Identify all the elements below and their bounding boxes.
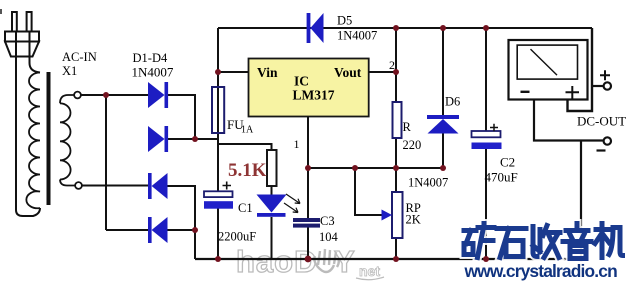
wire left vertical bbox=[105, 95, 107, 230]
svg-text:2K: 2K bbox=[406, 213, 421, 227]
transformer X1 secondary bbox=[60, 103, 71, 179]
svg-text:1: 1 bbox=[294, 137, 300, 151]
svg-text:1N4007: 1N4007 bbox=[408, 176, 448, 190]
junction ADJ R220/RP bbox=[393, 165, 399, 171]
junction top rail D6 bbox=[440, 25, 446, 31]
svg-text:www.crystalradio.cn: www.crystalradio.cn bbox=[464, 261, 618, 281]
svg-text:C1: C1 bbox=[238, 201, 253, 215]
terminal DC- bbox=[604, 137, 611, 144]
wire C2 column bbox=[485, 28, 487, 259]
junction ADJ D6 bbox=[440, 165, 446, 171]
wire minus drop to rail bbox=[580, 141, 582, 260]
diode D6 bbox=[427, 115, 459, 134]
junction secondary-top node bbox=[103, 92, 109, 98]
svg-text:Y: Y bbox=[334, 244, 355, 279]
terminal circle bottom bbox=[75, 182, 82, 189]
watermark haoDIY.net bbox=[236, 244, 384, 280]
svg-text:DC-OUT: DC-OUT bbox=[577, 114, 626, 129]
diode D2 bbox=[148, 126, 168, 152]
svg-text:Vin: Vin bbox=[257, 65, 278, 80]
wire branch to 5.1K bbox=[218, 144, 272, 150]
resistor R 220 bbox=[393, 102, 402, 138]
fuse FU bbox=[212, 87, 224, 133]
watermark kuangshi chars bbox=[464, 224, 623, 259]
meter M1 bbox=[509, 40, 588, 100]
svg-text:IC: IC bbox=[294, 74, 309, 89]
junction rail DC-minus bbox=[578, 256, 583, 261]
svg-text:C3: C3 bbox=[320, 214, 335, 228]
wire D4 row bbox=[106, 229, 195, 231]
junction rail C3 bbox=[305, 256, 312, 263]
diode D3 bbox=[148, 173, 168, 199]
svg-text:470uF: 470uF bbox=[485, 170, 518, 185]
svg-text:R: R bbox=[403, 120, 412, 134]
junction rail C1 bbox=[215, 256, 221, 262]
wire D3 anode jog bbox=[168, 186, 196, 230]
junction D1-D2 cathodes bbox=[192, 136, 198, 142]
diode D5 bbox=[307, 13, 324, 43]
junction Vout pin 2 bbox=[393, 69, 399, 75]
wire Vout bbox=[369, 71, 396, 73]
junction rail RP bbox=[393, 256, 399, 262]
junction ADJ wiper bbox=[352, 165, 358, 171]
junction D3-D4 anodes bbox=[192, 227, 198, 233]
wire main positive column x218 bbox=[217, 28, 219, 259]
terminal DC+ bbox=[604, 82, 611, 89]
wire pin1 column bbox=[307, 117, 309, 260]
svg-text:Vout: Vout bbox=[334, 65, 362, 80]
wire 5.1K to LED bbox=[271, 186, 273, 195]
svg-text:1N4007: 1N4007 bbox=[132, 65, 174, 80]
junction ADJ pin1/C3 bbox=[305, 165, 311, 171]
potentiometer RP bbox=[392, 192, 403, 238]
capacitor C3 bbox=[293, 218, 320, 222]
transformer X1 primary bbox=[26, 73, 40, 209]
wire DC-OUT plus hook bbox=[568, 28, 593, 111]
svg-text:D5: D5 bbox=[337, 14, 352, 28]
wire R220 column bbox=[395, 28, 397, 259]
svg-text:AC-IN: AC-IN bbox=[62, 50, 97, 64]
wire D2 row to fuse column bbox=[168, 138, 219, 140]
svg-text:LM317: LM317 bbox=[293, 88, 335, 103]
wire plug cord bbox=[16, 32, 40, 216]
wire bottom rail bbox=[195, 258, 581, 260]
wire plus terminal lead bbox=[592, 85, 603, 87]
svg-text:2200uF: 2200uF bbox=[218, 230, 256, 244]
watermark crystalradio bbox=[464, 261, 618, 281]
svg-text:haoD: haoD bbox=[236, 244, 318, 279]
junction top rail R220 bbox=[393, 25, 399, 31]
LED D7 bbox=[257, 195, 287, 217]
wire minus branch bbox=[534, 88, 603, 141]
svg-text:D1-D4: D1-D4 bbox=[133, 51, 168, 65]
capacitor C2 bbox=[472, 131, 501, 137]
RP wiper arrow bbox=[382, 210, 393, 221]
svg-text:X1: X1 bbox=[62, 64, 77, 78]
svg-text:220: 220 bbox=[403, 138, 422, 152]
wire top rail bbox=[218, 27, 592, 29]
resistor 5.1K bbox=[267, 150, 277, 186]
wire Vin bbox=[218, 71, 249, 73]
svg-text:1A: 1A bbox=[241, 125, 254, 136]
junction rail C2 bbox=[483, 256, 489, 262]
wire LED to rail bbox=[271, 217, 273, 259]
wire secondary bottom to D3 bbox=[82, 185, 148, 187]
svg-text:net: net bbox=[359, 263, 380, 279]
svg-text:D6: D6 bbox=[445, 95, 460, 109]
svg-text:104: 104 bbox=[319, 230, 339, 244]
wire D1 cathode jog bbox=[168, 95, 196, 139]
junction Vin branch bbox=[215, 69, 221, 75]
terminal circle top bbox=[74, 92, 81, 99]
wire bottom rail drop bbox=[194, 230, 196, 259]
svg-text:1N4007: 1N4007 bbox=[337, 29, 377, 43]
LED arrows bbox=[284, 194, 300, 213]
diode D1 bbox=[148, 82, 168, 108]
svg-text:5.1K: 5.1K bbox=[228, 160, 267, 181]
capacitor C1 bbox=[204, 191, 233, 197]
svg-text:2: 2 bbox=[389, 58, 395, 72]
plug P1 bbox=[5, 12, 39, 57]
wire RP wiper bbox=[355, 168, 382, 215]
diode D4 bbox=[148, 217, 168, 243]
IC U1 LM317 box bbox=[249, 59, 369, 117]
svg-text:C2: C2 bbox=[500, 155, 515, 170]
wire ADJ line bbox=[308, 167, 443, 169]
junction top rail C2 bbox=[483, 25, 489, 31]
transformer X1 core bbox=[47, 72, 51, 205]
wire secondary top to bridge bbox=[81, 94, 148, 96]
wire D6 column bbox=[442, 28, 444, 168]
